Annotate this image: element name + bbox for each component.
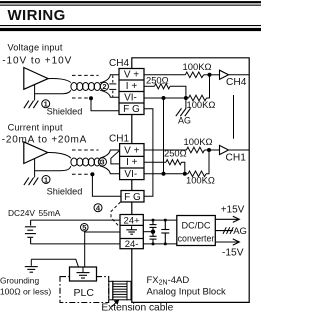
shield dashes CH4 [72, 74, 99, 76]
wire: 250 down to VI- CH4 [170, 86, 186, 98]
node cap midpoint [151, 230, 155, 234]
wire: shield to FG CH4 [91, 98, 120, 111]
terminal block CH1 [120, 144, 144, 180]
marker 2 (cable CH4) [100, 82, 108, 90]
marker 1 (current) [42, 176, 50, 184]
bus: AG CH4 to CH1 [163, 98, 165, 174]
terminal block 24V [120, 215, 143, 249]
svg-text:-10V to +10V: -10V to +10V [2, 55, 72, 66]
capacitor (optional, dashed) V+ to VI- [109, 75, 116, 97]
coil CH1 cable [71, 158, 100, 166]
svg-text:DC24V55mA: DC24V55mA [8, 208, 61, 218]
svg-text:-15V: -15V [222, 247, 244, 258]
bus: FG CH4 to CH1 [144, 109, 153, 197]
ground hatch at current source [34, 171, 36, 178]
wire: 250 down to VI- CH1 [182, 162, 185, 174]
wire: upper conductor CH1 [48, 152, 71, 158]
voltage source amp triangle [24, 68, 48, 90]
wire: 24- to DC/DC [143, 243, 177, 245]
marker 5 [81, 224, 89, 232]
PLC ground terminal box [70, 267, 97, 281]
resistor 100K upper CH4 [185, 72, 203, 78]
capacitor lower (filter) [150, 232, 157, 244]
ground hatch at voltage source [34, 94, 36, 101]
svg-text:WIRING: WIRING [8, 7, 66, 24]
svg-text:1: 1 [44, 175, 48, 184]
grounding electrode [30, 259, 32, 266]
node AG-bus bottom [162, 172, 166, 176]
marker 3 (cable CH1) [98, 158, 106, 166]
terminal FG box CH1 [121, 191, 144, 203]
AG output [215, 230, 233, 232]
node buffer input CH1 [207, 148, 211, 152]
svg-text:(100Ω or less): (100Ω or less) [0, 287, 51, 297]
header top rule [0, 1, 261, 3]
svg-text:Analog Input Block: Analog Input Block [147, 286, 226, 297]
node buffer input CH4 [208, 73, 212, 77]
svg-text:Grounding: Grounding [0, 276, 39, 286]
svg-text:F G: F G [123, 104, 140, 115]
svg-text:100KΩ: 100KΩ [186, 174, 215, 185]
svg-text:Current input: Current input [8, 123, 63, 133]
svg-text:CH1: CH1 [226, 153, 247, 164]
marker 4 [94, 204, 102, 212]
-15V output arrow [215, 239, 239, 245]
buffer amp CH1 [220, 145, 229, 154]
svg-text:+15V: +15V [221, 205, 245, 216]
PLC box (chain line) [60, 277, 109, 303]
svg-text:CH1: CH1 [109, 134, 129, 145]
continuation line (channels omitted) [233, 95, 235, 139]
svg-text:CH4: CH4 [109, 58, 129, 69]
svg-text:Shielded: Shielded [47, 186, 83, 196]
svg-text:Extension cable: Extension cable [101, 303, 173, 314]
wire: I+ row CH1 [144, 161, 166, 163]
wire: cable exit to VI- CH1 [100, 166, 120, 174]
resistor 250 CH1 [166, 160, 182, 165]
wire: V+ row CH1 [144, 149, 186, 151]
wire riser to buffer node CH4 [207, 75, 210, 98]
earth symbol in shield cell [126, 226, 137, 234]
resistor 250 CH4 [155, 84, 171, 89]
svg-text:VI-: VI- [124, 169, 137, 180]
svg-text:100KΩ: 100KΩ [183, 61, 212, 72]
wire: V+ row CH4 [144, 74, 185, 76]
svg-text:CH4: CH4 [226, 77, 247, 88]
svg-text:3: 3 [100, 158, 104, 167]
svg-text:AG: AG [233, 226, 247, 237]
wire to buffer node CH1 [205, 149, 220, 151]
wire: 24+ to DC/DC [143, 219, 177, 221]
svg-text:250Ω: 250Ω [164, 147, 187, 158]
wire: 24V plus [31, 219, 120, 221]
node VI- junction CH1 [183, 172, 187, 176]
node: shield drain dot CH1 [90, 172, 94, 176]
svg-text:250Ω: 250Ω [146, 74, 169, 85]
svg-text:VI-: VI- [124, 93, 137, 104]
svg-text:AG: AG [178, 115, 191, 125]
resistor 100K lower CH1 [188, 171, 206, 177]
terminal block CH4 [119, 69, 144, 115]
node AG-bus top [162, 96, 166, 100]
svg-text:-20mA to +20mA: -20mA to +20mA [2, 135, 87, 146]
svg-text:I +: I + [126, 81, 138, 92]
svg-text:F G: F G [124, 192, 141, 203]
wire: lower conductor CH4 [35, 85, 71, 94]
wire: CH1 output [229, 149, 250, 151]
jumper V+ to I+ CH1 [111, 150, 120, 164]
dashed shield route FG to 24V shield terminal [111, 202, 121, 228]
extension cable [109, 281, 131, 300]
svg-text:DC/DC: DC/DC [181, 221, 210, 231]
marker 1 (voltage) [42, 100, 50, 108]
resistor 100K upper CH1 [186, 147, 204, 153]
junction dots caps [152, 219, 155, 222]
buffer amp CH4 [220, 70, 229, 79]
wire: VI- row CH4 [144, 97, 189, 99]
svg-text:Shielded: Shielded [47, 106, 83, 116]
svg-text:2: 2 [102, 82, 106, 91]
wire: I+ row CH4 [144, 85, 155, 87]
wire: CH4 output [229, 74, 250, 76]
resistor 100K lower CH4 [189, 95, 207, 101]
arrow to extension cable [112, 301, 119, 308]
wire to buffer node CH4 [204, 74, 220, 76]
svg-text:24+: 24+ [124, 216, 141, 227]
battery [25, 220, 36, 244]
shield dashes CH1 [72, 149, 99, 151]
node: shield drain dot CH4 [89, 96, 93, 100]
wire: cable exit to VI- CH4 [100, 90, 120, 97]
wire: shield cell to cap midpoint [143, 231, 153, 233]
wire: grounding to PLC ground box [31, 259, 78, 267]
wire: 24V minus [31, 243, 120, 245]
svg-text:V +: V + [124, 70, 139, 81]
capacitor upper (filter) [150, 220, 157, 232]
coil CH4 cable [71, 83, 100, 91]
svg-text:I +: I + [126, 157, 138, 168]
svg-text:V +: V + [124, 145, 139, 156]
wire: shield to FG CH1 [92, 174, 121, 196]
AG ground symbol [185, 98, 187, 109]
svg-text:FX2N-4AD: FX2N-4AD [147, 275, 190, 287]
wire: lower conductor CH1 [35, 159, 71, 171]
svg-text:Voltage input: Voltage input [8, 43, 63, 53]
svg-text:PLC: PLC [74, 287, 95, 299]
header thick rule [0, 25, 261, 26]
wire: shield terminal to PLC ground [85, 232, 120, 267]
svg-text:100KΩ: 100KΩ [184, 136, 213, 147]
FX2N-4AD analog block outline [132, 58, 249, 303]
wire: upper conductor CH4 [48, 79, 71, 83]
current source amp triangle [24, 142, 48, 164]
svg-text:5: 5 [82, 223, 86, 232]
svg-text:converter: converter [178, 234, 215, 244]
capacitor bulk [161, 220, 169, 244]
wire: cable exit to V+ CH1 [100, 150, 120, 158]
wire: VI- row CH1 [144, 173, 188, 175]
svg-text:24-: 24- [125, 239, 139, 250]
node VI- junction CH4 [184, 96, 188, 100]
DC/DC converter box [177, 216, 216, 246]
wire: cable exit to V+ CH4 [100, 75, 120, 83]
wire riser to buffer node CH1 [206, 150, 209, 174]
